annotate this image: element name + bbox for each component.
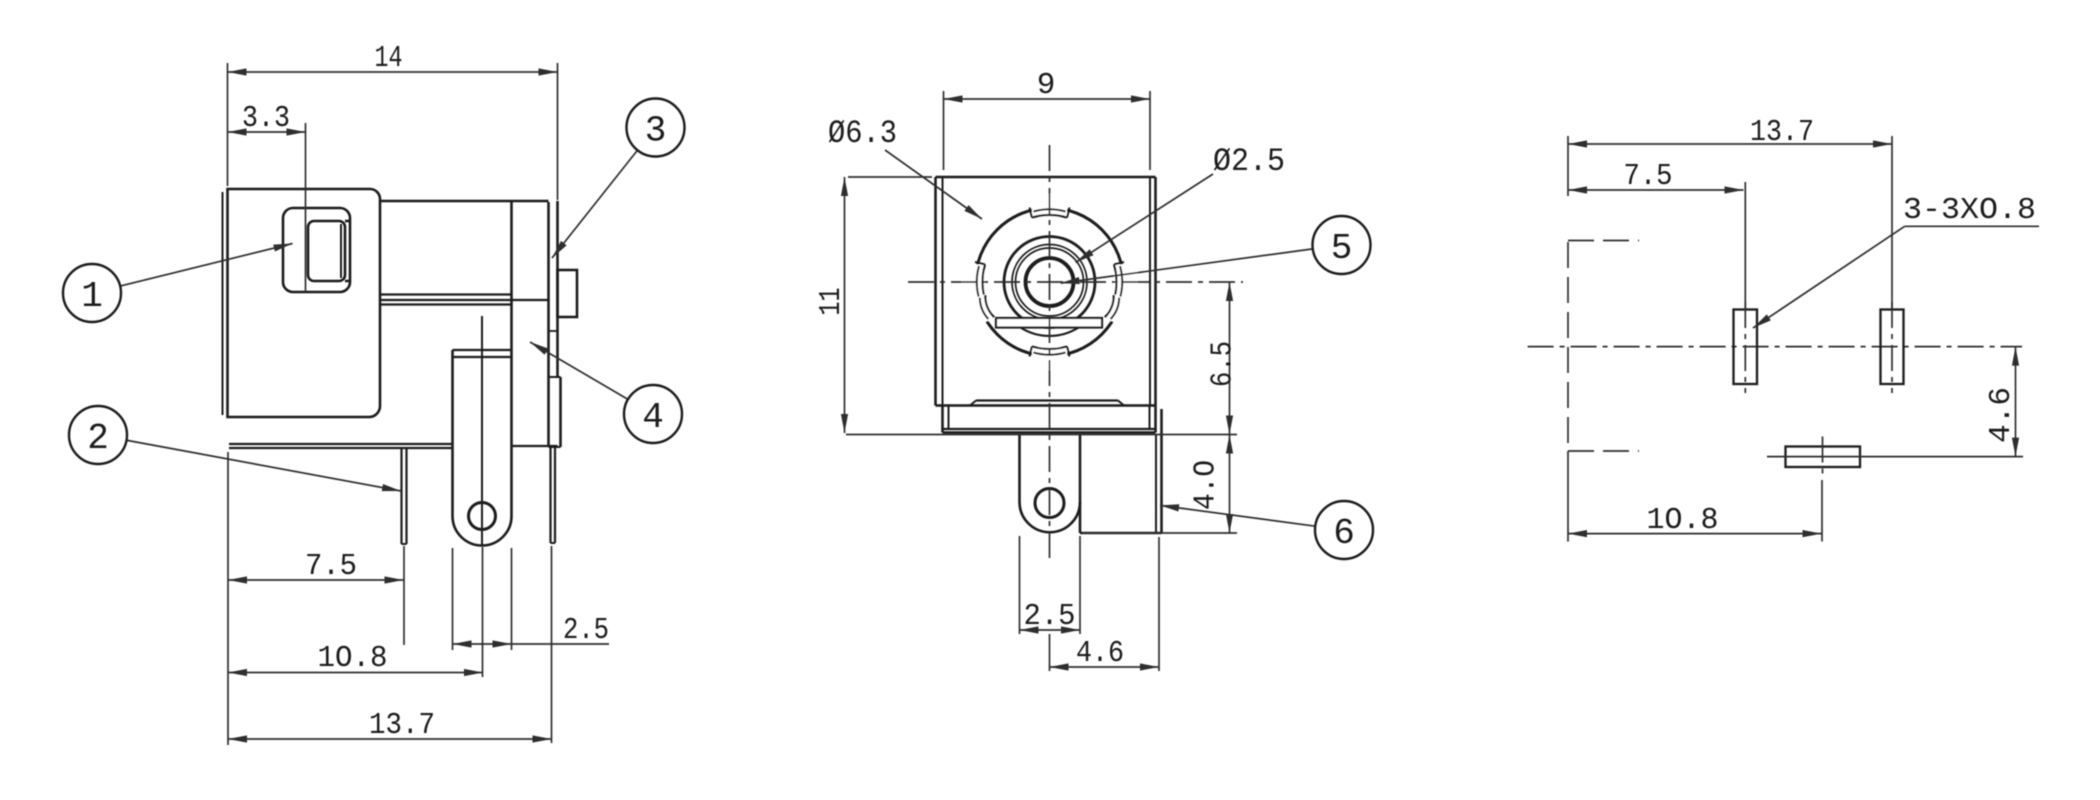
svg-text:14: 14 (375, 41, 403, 76)
left view dim: 3.3 (228, 131, 306, 133)
left view: terminal tab pin3 side (558, 270, 578, 317)
pcb layout: pad 2 (shell pin) (1881, 310, 1904, 385)
front view: body square outline (936, 176, 1156, 179)
svg-text:6: 6 (1333, 513, 1355, 554)
svg-text:7.5: 7.5 (305, 549, 357, 584)
pcb layout dim: 10.8 (1568, 533, 1822, 535)
left view callout 1: snap clip (120, 244, 292, 287)
left view: pin3 leg (549, 447, 551, 543)
svg-text:7.5: 7.5 (1624, 159, 1673, 194)
svg-text:13.7: 13.7 (369, 708, 435, 743)
pcb layout dim: 4.6 (2015, 347, 2017, 457)
front view: center pin circle (1026, 258, 1074, 306)
pcb layout dim: 13.7 (1568, 143, 1892, 145)
left view: barrel top edge (380, 200, 549, 203)
front view callout 6: pin3 leg (1160, 505, 1315, 526)
left view: snap clip inner window (308, 221, 345, 281)
front view: center lines (1049, 145, 1051, 561)
left view: pin3 shoulder step (549, 376, 561, 378)
left view: snap clip outer (283, 208, 350, 292)
front view dim: 6.5 (1229, 282, 1231, 435)
front view dim: 2.5 lug width (1020, 629, 1081, 631)
svg-text:13.7: 13.7 (1750, 115, 1814, 150)
svg-text:1O.8: 1O.8 (1647, 503, 1719, 538)
front view: base strip (948, 406, 950, 430)
front view: thread rings (1012, 245, 1087, 320)
front view dim: 4.6 (1050, 666, 1160, 668)
pcb layout dim: 7.5 (1568, 189, 1744, 191)
left view dim: 2.5 terminal width (452, 548, 454, 650)
svg-text:9: 9 (1037, 68, 1056, 103)
svg-text:6.5: 6.5 (1206, 341, 1241, 387)
front view dim: 4.0 (1229, 435, 1231, 534)
left view: front plastic body outline (228, 189, 381, 417)
front view dim: 9 width (944, 98, 1151, 100)
left view dim: 13.7 overall (228, 738, 552, 740)
pcb layout: pad 1 (center pin) (1734, 310, 1758, 385)
svg-text:3.3: 3.3 (242, 101, 290, 136)
front view: knurled nut circle (976, 208, 1124, 356)
svg-text:2.5: 2.5 (563, 613, 609, 648)
front view: bottom lip step (976, 399, 1118, 401)
left view: center terminal lug (451, 350, 454, 516)
left view: barrel end cap line (510, 201, 513, 516)
front view: pin3 flat leg (1079, 502, 1082, 533)
front view dim: 11 height (844, 177, 846, 433)
left view: terminal hole (469, 503, 496, 530)
svg-text:4.O: 4.O (1189, 460, 1224, 510)
svg-text:3: 3 (645, 111, 667, 152)
pcb layout: hidden outline dashes (1567, 242, 1569, 451)
svg-text:4: 4 (642, 397, 664, 438)
left view: pin 2 leg (400, 448, 402, 544)
svg-text:Ø2.5: Ø2.5 (1213, 143, 1285, 180)
left view: right face seam tick (549, 330, 558, 332)
front view callout 5: center pin (1061, 249, 1313, 283)
svg-text:4.6: 4.6 (1076, 636, 1124, 671)
left view dim: 7.5 (228, 579, 404, 581)
front view: collar flat bar (996, 318, 1102, 328)
left view dim: 14 top width (228, 71, 558, 73)
left view: right face line (556, 201, 559, 377)
left view callout 3: front cap (552, 150, 637, 258)
svg-text:2.5: 2.5 (1024, 599, 1076, 634)
svg-text:4.6: 4.6 (1984, 387, 2019, 443)
left view: center pin line (481, 316, 483, 545)
pcb layout: pad 3 (switch pin) (1786, 447, 1861, 468)
svg-text:Ø6.3: Ø6.3 (828, 115, 897, 152)
svg-text:3-3XO.8: 3-3XO.8 (1903, 193, 2036, 228)
pcb layout dim: extension lines (1567, 136, 1569, 196)
svg-text:1O.8: 1O.8 (318, 641, 388, 676)
left view: body left secondary edge (222, 192, 224, 415)
left view dim: extension lines (227, 63, 229, 186)
front view: collar circle (1004, 237, 1095, 328)
left view callout 4: metal shell (530, 342, 628, 399)
left view: bottom flange lines (229, 443, 453, 445)
svg-text:2: 2 (87, 418, 109, 459)
left view: metal front cap line (547, 202, 550, 447)
front view: lug hole (1035, 489, 1064, 518)
front view: nut notches (1032, 194, 1067, 218)
svg-text:5: 5 (1331, 228, 1353, 269)
left view callout 2: pin 2 leg (127, 440, 401, 491)
svg-text:11: 11 (814, 288, 849, 316)
front view: lug tab below body (1018, 435, 1021, 502)
front view dim: extension lines (943, 91, 945, 170)
left view dim: 10.8 (228, 672, 483, 674)
svg-text:1: 1 (81, 276, 103, 317)
pcb layout: main center line (1528, 346, 2022, 348)
left view: barrel seam lines (380, 293, 512, 295)
